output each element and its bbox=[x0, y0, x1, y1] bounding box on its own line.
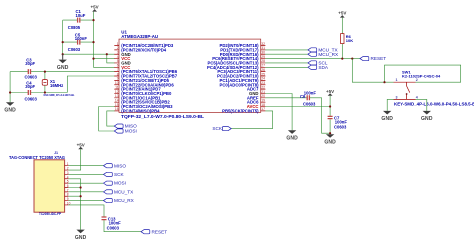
node MCU_TX tag bbox=[104, 189, 135, 194]
wire MCU_TX bbox=[265, 49, 308, 51]
capacitor C3 bbox=[25, 58, 38, 80]
wire AVCC row bbox=[265, 106, 330, 108]
wire XTAL1 row bbox=[10, 71, 115, 73]
junction C5 left bbox=[62, 41, 64, 43]
svg-text:GND: GND bbox=[75, 235, 87, 241]
svg-text:+5V: +5V bbox=[326, 89, 334, 94]
node SCK mcu bbox=[212, 126, 231, 131]
wire PB5 SCK route bbox=[231, 111, 272, 129]
svg-text:GND: GND bbox=[4, 108, 16, 114]
wire left rail C1C5 bbox=[62, 20, 64, 54]
svg-text:30pF: 30pF bbox=[25, 84, 35, 89]
svg-text:10uF: 10uF bbox=[76, 13, 86, 18]
wire MCU_RX bbox=[265, 53, 308, 55]
junction C5 right bbox=[92, 41, 94, 43]
svg-text:MCU_RX: MCU_RX bbox=[114, 198, 135, 203]
node MOSI tag bbox=[104, 181, 126, 186]
svg-text:+5V: +5V bbox=[338, 11, 346, 16]
wire switch gnd right bbox=[416, 99, 427, 111]
mcu U1 ATMEGA328P-AU bbox=[114, 29, 265, 119]
node MCU_RX tag bbox=[104, 198, 135, 203]
junction C1 right bbox=[92, 19, 94, 21]
power +5V above C7 bbox=[326, 89, 334, 96]
svg-text:SDA: SDA bbox=[318, 65, 329, 70]
wire R6 leads bbox=[341, 18, 343, 59]
node SCK tag bbox=[104, 172, 125, 177]
wire C5 row bbox=[63, 41, 94, 43]
wire VCC pin6 bbox=[94, 59, 115, 68]
wire branch pin5 bbox=[107, 54, 115, 63]
svg-text:10K: 10K bbox=[346, 38, 353, 43]
svg-text:SCK: SCK bbox=[212, 126, 223, 131]
svg-text:17: 17 bbox=[261, 107, 265, 111]
svg-text:TQFP-32_L7.0-W7.0-P0.80-LS9.0-: TQFP-32_L7.0-W7.0-P0.80-LS9.0-BL bbox=[121, 114, 204, 119]
svg-text:GND: GND bbox=[324, 139, 336, 145]
node MCU_RX bbox=[308, 52, 339, 57]
junction crystal bottom bbox=[44, 91, 46, 93]
wire left rail crystal bbox=[9, 72, 11, 103]
svg-text:MCU_RX: MCU_RX bbox=[318, 52, 339, 57]
svg-text:100nF: 100nF bbox=[75, 36, 88, 41]
svg-text:3: 3 bbox=[396, 95, 398, 99]
ground MCU pin21 bbox=[286, 130, 298, 141]
ground stub near C1 bbox=[62, 54, 64, 59]
junction GND rail bbox=[62, 53, 64, 55]
capacitor C13 bbox=[102, 216, 122, 230]
svg-text:KEY-SMD_4P-L6.0-W6.0-P4.50-LS8: KEY-SMD_4P-L6.0-W6.0-P4.50-LS8.5-BL bbox=[394, 102, 474, 107]
wire MISO route bbox=[107, 111, 115, 126]
svg-text:MISO: MISO bbox=[114, 163, 126, 168]
svg-text:SCK: SCK bbox=[114, 172, 125, 177]
wire tag pin7 MCU_TX bbox=[68, 191, 103, 193]
wire AREF row bbox=[265, 98, 330, 133]
svg-text:2: 2 bbox=[416, 78, 418, 82]
power +5V above R6 bbox=[338, 11, 346, 18]
ground below C7 bbox=[324, 134, 336, 145]
svg-text:GND: GND bbox=[381, 116, 393, 122]
ground crystal caps bbox=[4, 102, 16, 113]
node RESET bottom bbox=[141, 229, 167, 234]
switch SW1 bbox=[394, 69, 474, 106]
power +5V tag connector bbox=[77, 142, 85, 149]
svg-text:C0603: C0603 bbox=[107, 226, 120, 231]
connector J1 TAG-CONNECT TC2050 bbox=[9, 151, 71, 216]
svg-text:ATMEGA328P-AU: ATMEGA328P-AU bbox=[121, 34, 158, 39]
junction tag pin6 bbox=[80, 186, 82, 188]
wire GND rail to pin3 bbox=[63, 53, 115, 55]
svg-text:OSC-SMD_4P-L3.2-W2.5-BL: OSC-SMD_4P-L3.2-W2.5-BL bbox=[44, 93, 75, 97]
ground tag connector bbox=[75, 230, 87, 241]
svg-text:C0603: C0603 bbox=[334, 125, 347, 130]
capacitor C4 bbox=[25, 81, 38, 102]
svg-text:4: 4 bbox=[416, 95, 418, 99]
node MOSI mcu bbox=[114, 129, 136, 134]
svg-text:MCU_TX: MCU_TX bbox=[114, 189, 134, 194]
wire C4 row bbox=[10, 92, 67, 94]
wire switch loop bbox=[385, 65, 461, 82]
wire VCC pin4 bbox=[94, 58, 115, 60]
svg-text:MOSI: MOSI bbox=[114, 181, 126, 186]
svg-text:+5V: +5V bbox=[91, 5, 99, 10]
junction crystal top bbox=[44, 71, 46, 73]
node MCU_TX bbox=[308, 48, 339, 53]
svg-text:TC2050-IDC-FP: TC2050-IDC-FP bbox=[39, 212, 61, 216]
wire +5V rail to VCC bbox=[93, 12, 95, 59]
svg-text:RESET: RESET bbox=[152, 229, 168, 234]
svg-text:GND: GND bbox=[286, 136, 298, 142]
wire crystal leads bbox=[44, 72, 46, 93]
svg-text:16MHz: 16MHz bbox=[50, 83, 63, 88]
svg-text:GND: GND bbox=[57, 65, 69, 71]
ground switch right bbox=[421, 111, 433, 122]
svg-text:C0603: C0603 bbox=[303, 101, 316, 106]
junction pin5 branch bbox=[106, 53, 108, 55]
node MISO mcu bbox=[114, 124, 137, 129]
wire switch gnd left bbox=[387, 99, 393, 111]
capacitor C7 bbox=[328, 115, 348, 129]
svg-text:RESET: RESET bbox=[371, 56, 387, 61]
junction C6 gnd bbox=[329, 132, 331, 134]
wire SCL bbox=[265, 62, 308, 64]
node SDA bbox=[308, 65, 329, 70]
ground near C1/C5 bbox=[57, 60, 69, 71]
junction switch loop bbox=[383, 81, 385, 83]
wire RESET row bbox=[265, 58, 360, 60]
svg-text:C6: C6 bbox=[300, 94, 306, 99]
wire switch feed bbox=[352, 59, 393, 83]
junction VCC pin4 bbox=[92, 58, 94, 60]
capacitor C1 bbox=[68, 9, 86, 30]
wire tag gnd bus bbox=[68, 179, 80, 230]
wire tag pin3 SCK bbox=[68, 173, 103, 175]
svg-text:16: 16 bbox=[115, 107, 119, 111]
svg-text:PB5(SCK/PCINT5): PB5(SCK/PCINT5) bbox=[222, 108, 259, 113]
svg-text:1: 1 bbox=[396, 78, 398, 82]
junction reset branch bbox=[351, 58, 353, 60]
svg-text:C0603: C0603 bbox=[25, 75, 38, 80]
crystal X1 bbox=[42, 79, 74, 97]
wire tag pin10 DTR bbox=[68, 205, 141, 232]
junction tag pin8 bbox=[80, 195, 82, 197]
power +5V near C1 bbox=[91, 5, 99, 12]
wire MCU gnd pin21 bbox=[265, 94, 292, 131]
svg-text:GND: GND bbox=[421, 116, 433, 122]
wire MOSI route bbox=[99, 107, 115, 132]
svg-text:C0805: C0805 bbox=[68, 25, 81, 30]
svg-text:C0603: C0603 bbox=[25, 97, 38, 102]
wire tag pin9 MCU_RX bbox=[68, 200, 103, 202]
node RESET top bbox=[360, 56, 386, 61]
junction R6 bottom bbox=[341, 58, 343, 60]
wire XTAL2 route bbox=[67, 76, 114, 93]
capacitor C6 bbox=[300, 91, 316, 107]
svg-text:C0603: C0603 bbox=[68, 47, 81, 52]
junction C4 left bbox=[9, 91, 11, 93]
svg-text:100nF: 100nF bbox=[304, 91, 317, 96]
node MISO tag bbox=[104, 163, 127, 168]
node SCL bbox=[308, 61, 328, 66]
svg-text:30pF: 30pF bbox=[25, 61, 35, 66]
wire tag pin1 MISO bbox=[68, 165, 103, 167]
svg-text:(PCINT4/MISO)PB4: (PCINT4/MISO)PB4 bbox=[121, 108, 160, 113]
svg-text:K2-1102SP-C4SC-04: K2-1102SP-C4SC-04 bbox=[402, 73, 441, 78]
wire SDA bbox=[265, 66, 308, 68]
svg-text:MOSI: MOSI bbox=[125, 129, 137, 134]
wire C1 row bbox=[63, 19, 94, 21]
capacitor C5 bbox=[68, 32, 88, 51]
ground switch left bbox=[381, 111, 393, 122]
junction AVCC 5V bbox=[329, 105, 331, 107]
resistor R6 bbox=[341, 34, 354, 44]
wire tag pin5 MOSI bbox=[68, 182, 103, 184]
wire tag 5V pin2 bbox=[68, 149, 80, 170]
wire C7 leads bbox=[329, 96, 331, 134]
svg-text:+5V: +5V bbox=[77, 142, 85, 147]
